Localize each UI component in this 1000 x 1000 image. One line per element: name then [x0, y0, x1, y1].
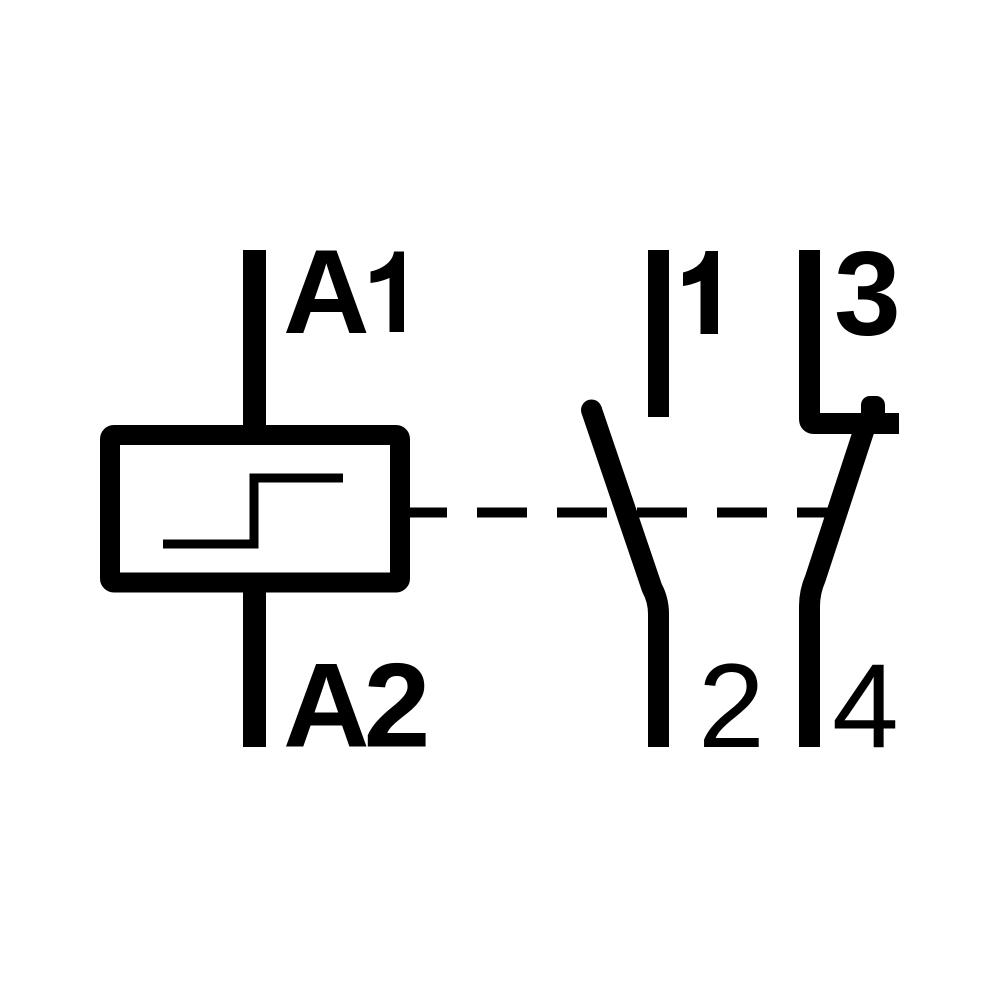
- contact 3-4 moving blade: [810, 430, 865, 747]
- coil K1 (rectangle body): [110, 435, 400, 583]
- coil step/latch symbol inside coil: [163, 478, 343, 544]
- contact 1-2 moving blade: [581, 400, 602, 421]
- svg-text:4: 4: [832, 639, 899, 773]
- label A1 (digit 1, no-foot style): [371, 252, 405, 333]
- svg-text:3: 3: [834, 227, 901, 361]
- mechanical link dashed line: [397, 508, 828, 518]
- fixed contact bump on foot: [861, 396, 885, 428]
- label 1 (no-foot style): [683, 251, 718, 334]
- svg-text:2: 2: [698, 639, 765, 773]
- contact 3-4 top terminal wire with foot (pin 3): [810, 250, 900, 424]
- terminal A2 wire: [243, 580, 266, 747]
- contact 1-2 top terminal wire (pin 1): [648, 250, 669, 417]
- svg-text:A: A: [283, 225, 370, 359]
- terminal A1 wire: [243, 250, 266, 440]
- svg-text:A2: A2: [283, 639, 426, 773]
